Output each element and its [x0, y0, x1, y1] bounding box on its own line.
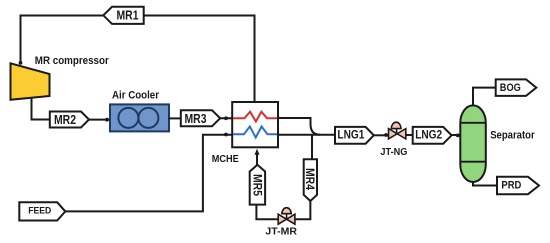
wire JT-NG to LNG2: [406, 134, 413, 136]
svg-text:JT-MR: JT-MR: [265, 227, 297, 238]
valve JT-MR dome: [282, 208, 291, 214]
tag BOG: [496, 79, 537, 96]
tag LNG2: [413, 127, 452, 144]
svg-text:MR1: MR1: [117, 9, 139, 23]
wire MR4 to JT-MR valve: [295, 201, 310, 219]
MCHE box: [232, 102, 278, 147]
svg-text:MR4: MR4: [303, 168, 317, 190]
node MCHE feed inlet dot: [224, 133, 228, 137]
arrowhead into MCHE bottom: [255, 149, 260, 155]
valve JT-MR bowtie: [278, 214, 286, 224]
air cooler fan circle 1: [118, 108, 138, 128]
separator top cap line: [460, 122, 486, 124]
tag MR5 (points up): [250, 165, 265, 205]
node air cooler inlet dot: [105, 118, 109, 122]
tag LNG1: [335, 127, 374, 144]
node compressor inlet dot: [19, 61, 23, 65]
wire separator bottom to PRD: [473, 182, 497, 186]
tag PRD: [497, 177, 539, 194]
node MCHE hot inlet dot: [224, 116, 228, 120]
separator vessel: [460, 105, 486, 182]
valve JT-NG stem: [396, 129, 398, 134]
tag MR3: [181, 110, 220, 126]
svg-text:MR5: MR5: [250, 174, 264, 196]
svg-text:MR compressor: MR compressor: [35, 55, 110, 67]
MCHE red coil: [233, 112, 277, 122]
wire separator top to BOG: [473, 88, 496, 106]
wire branch down to MR4: [311, 135, 313, 160]
wire LNG2 to separator: [452, 134, 461, 136]
wire FEED to MCHE: [65, 135, 232, 212]
air cooler box: [110, 104, 169, 131]
svg-text:MCHE: MCHE: [212, 154, 239, 165]
svg-text:PRD: PRD: [501, 179, 521, 191]
air cooler fan circle 2: [138, 108, 158, 128]
wire LNG1 to JT-NG: [374, 134, 389, 136]
wire compressor outlet to MR2: [32, 98, 50, 120]
tag FEED: [19, 202, 65, 220]
MCHE blue coil: [233, 127, 277, 138]
wire MR3 to MCHE: [220, 117, 232, 119]
svg-text:LNG1: LNG1: [337, 128, 364, 142]
wire MCHE to LNG1: [278, 134, 335, 136]
svg-text:JT-NG: JT-NG: [380, 147, 407, 158]
tag MR4 (points down): [304, 159, 317, 201]
node JT-NG inlet dot: [384, 133, 388, 137]
valve JT-MR stem: [286, 214, 288, 220]
tag MR1: [103, 7, 143, 24]
valve JT-NG dome: [391, 122, 401, 128]
svg-text:Separator: Separator: [490, 129, 535, 141]
svg-text:FEED: FEED: [28, 206, 51, 217]
wire MR5 to MCHE bottom: [256, 152, 258, 165]
wire JT-MR to MR5: [256, 205, 278, 220]
node separator inlet dot: [456, 134, 460, 138]
separator bottom cap line: [460, 161, 486, 163]
svg-text:LNG2: LNG2: [415, 128, 442, 142]
wire MR1 loop (MCHE top to compressor inlet): [21, 16, 255, 103]
tag MR2: [50, 112, 89, 128]
svg-text:MR2: MR2: [54, 112, 76, 127]
valve JT-NG bowtie: [389, 129, 398, 139]
svg-text:MR3: MR3: [185, 111, 207, 126]
wire air cooler to MR3: [169, 117, 181, 119]
compressor MR: [11, 63, 50, 100]
wire MCHE warm out (red level) joining LNG line: [278, 118, 320, 135]
wire MR2 to air cooler: [89, 119, 111, 121]
svg-text:Air Cooler: Air Cooler: [112, 89, 160, 101]
svg-text:BOG: BOG: [500, 82, 521, 94]
